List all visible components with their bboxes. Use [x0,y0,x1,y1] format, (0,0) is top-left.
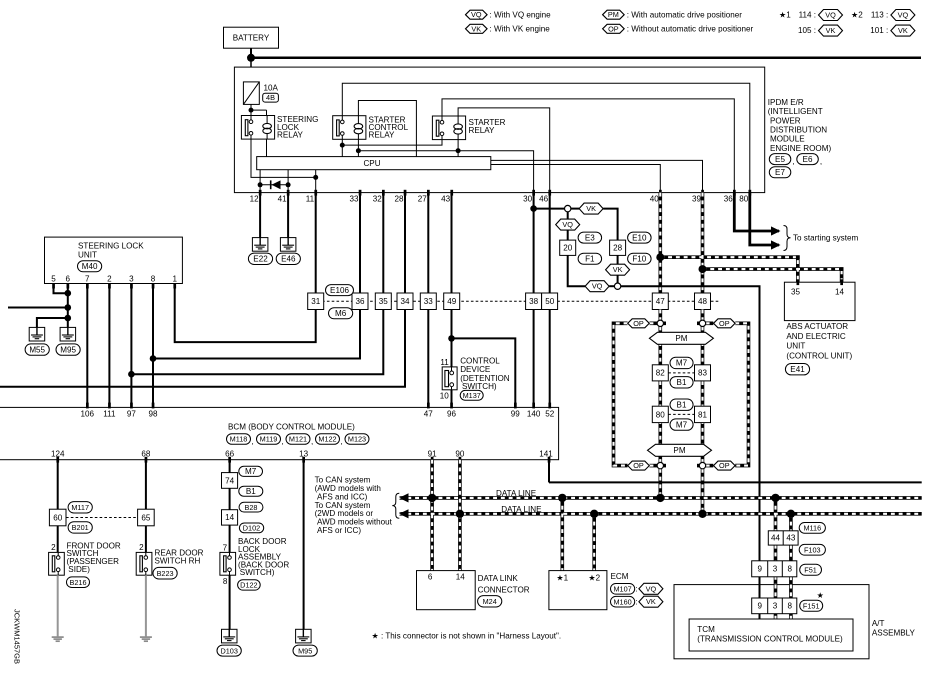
connector row F151 [752,598,797,614]
svg-text:AFS or ICC): AFS or ICC) [317,526,361,535]
dashed link 60-65 [66,517,138,519]
badge M122 [316,434,343,446]
svg-text:D103: D103 [220,646,237,655]
svg-text:★ : This connector is not show: ★ : This connector is not shown in "Harn… [372,632,562,641]
svg-text:To starting system: To starting system [793,233,858,242]
svg-text:SWITCH): SWITCH) [462,382,497,391]
svg-text:B1: B1 [677,401,687,410]
connector badge E6 [797,154,822,167]
badge F1 [578,253,602,264]
svg-text:M118: M118 [230,435,248,444]
svg-text:M55: M55 [29,345,45,354]
svg-text:★1: ★1 [556,574,568,583]
node circle top right [699,320,705,326]
wire striped 47 to PM section [658,310,662,321]
svg-text:11: 11 [440,358,449,367]
BCM top pin ticks [86,403,551,409]
svg-text:20: 20 [563,244,573,253]
connector box 36 [352,293,368,310]
badge B223 [153,567,177,579]
wire stubs through AT box [760,585,791,619]
svg-text:46: 46 [539,194,549,203]
svg-text:UNIT: UNIT [78,250,97,259]
svg-text:VQ: VQ [898,11,909,20]
wire striped BCM 91 to DLC 6 [430,460,434,571]
wire IPDM 80 to starting system [750,193,779,245]
svg-text:PM: PM [673,446,685,455]
svg-text:DATA LINK: DATA LINK [478,574,519,583]
badge D102 [239,523,263,533]
svg-text:48: 48 [698,297,708,306]
svg-text:VK: VK [471,24,481,33]
svg-text::: : [635,598,637,607]
wire CPU to pin 41 [286,170,291,193]
svg-text:F151: F151 [803,601,820,610]
svg-text:VQ: VQ [562,220,573,229]
connector box 74 [222,473,238,489]
badge M107 with VQ [611,583,663,594]
IPDM E/R enclosure [234,67,764,193]
svg-text:E22: E22 [253,255,268,264]
battery B1 [224,27,279,48]
svg-text:4B: 4B [266,93,275,102]
svg-text:(TRANSMISSION CONTROL MODULE): (TRANSMISSION CONTROL MODULE) [697,635,843,644]
svg-text:30: 30 [523,194,533,203]
connector box 33 [420,293,436,310]
svg-text:8: 8 [787,565,792,574]
badge M117 [68,502,92,513]
BCM body control module box [0,407,559,459]
wire BCM 68 to rear door switch [145,460,147,553]
svg-text:38: 38 [529,297,539,306]
node circle bottom left [657,462,663,468]
white stripes overlay bottom CAN wires [400,460,922,619]
svg-text:11: 11 [306,194,315,203]
svg-text:28: 28 [394,194,404,203]
badge VK top [579,203,603,214]
svg-text:★: ★ [817,591,824,600]
svg-text:MODULE: MODULE [770,135,805,144]
connector box 65 [138,509,155,526]
svg-text:39: 39 [692,194,702,203]
wire fusible link feed from pin 30 [534,208,565,210]
badge OP bottom left [628,461,650,470]
wire starter relay coil bottom to CPU [456,140,461,157]
badge E106 [326,285,354,296]
wire merge to TCM column [621,286,760,619]
connector box 80 [652,406,668,422]
badge PM bottom hexagon [648,444,712,456]
svg-text:49: 49 [447,297,457,306]
wire CPU to pin 39 [491,160,703,192]
svg-text::: : [635,585,637,594]
svg-text:RELAY: RELAY [469,126,496,135]
legend VK badge [466,24,551,33]
svg-text:M123: M123 [348,435,366,444]
data link connector box [417,571,530,610]
svg-text:68: 68 [141,449,151,458]
badge D122 [238,580,261,590]
wire IPDM 46 to BCM 52 [549,193,551,408]
svg-text:IPDM E/R: IPDM E/R [768,98,804,107]
svg-text:A/T: A/T [872,619,885,628]
wire SLR contact to wire 11 [251,139,318,180]
ECM box [549,571,629,610]
wire CPU to pin 40 [491,165,661,193]
body ground front door [52,637,64,641]
node junction on wire 40 [656,253,664,261]
svg-text:★2: ★2 [588,574,600,583]
svg-text:BCM (BODY CONTROL MODULE): BCM (BODY CONTROL MODULE) [228,423,355,432]
dashed link 82-83 [668,372,694,374]
connector box 35 [375,293,391,310]
svg-text:36: 36 [724,194,734,203]
svg-text:M117: M117 [71,503,89,512]
svg-text:RELAY: RELAY [369,131,396,140]
wire branch to ground M55 [37,318,68,327]
badge B1 back door [239,486,263,496]
svg-text:ASSEMBLY: ASSEMBLY [872,628,916,637]
BCM bottom pin ticks [56,457,550,463]
svg-text:8: 8 [151,274,156,283]
svg-text:B223: B223 [157,569,174,578]
svg-text:E41: E41 [790,365,805,374]
svg-text:83: 83 [698,369,708,378]
connector box 48 [695,293,711,310]
node junctions data line 1 [428,494,780,502]
svg-text:VK: VK [613,265,623,274]
svg-text:81: 81 [698,410,708,419]
svg-text:M137: M137 [463,391,481,400]
svg-text:DATA LINE: DATA LINE [496,489,537,498]
badge M24 [478,596,502,607]
svg-text:E3: E3 [585,233,595,242]
svg-text:★1: ★1 [779,10,791,19]
svg-text:M95: M95 [298,646,312,655]
wire striped BCM 90 to DLC 14 [458,460,462,571]
svg-text:M6: M6 [335,309,347,318]
svg-text:50: 50 [545,297,555,306]
connector badge E5 [769,154,794,167]
badge M160 with VK [611,596,663,607]
svg-text:VK: VK [898,26,908,35]
svg-text:ECM: ECM [611,572,629,581]
wire battery to bus [250,48,252,58]
ground D103 [217,629,241,656]
svg-text:CONTROL: CONTROL [460,356,500,365]
ground M95 bottom [293,629,317,656]
svg-text:D102: D102 [243,524,260,533]
svg-text:41: 41 [278,194,288,203]
svg-text:9: 9 [757,602,762,611]
svg-text:99: 99 [511,410,521,419]
svg-text:UNIT: UNIT [786,342,805,351]
svg-text:90: 90 [455,449,465,458]
dashed link 80-81 [668,413,694,415]
badge F103 [799,544,825,555]
wire VK to fuse 28 [603,209,617,241]
legend star1 connector numbers [779,10,843,37]
svg-text:124: 124 [51,449,65,458]
svg-text:VQ: VQ [471,10,482,19]
wire striped ECM star2 [592,514,596,571]
badge M123 [345,434,369,445]
badge OP top left [628,319,650,328]
wire back door switch to ground D103 [229,575,231,629]
svg-text:F103: F103 [804,545,821,554]
node circle bottom right [699,462,705,468]
svg-text:M24: M24 [483,597,497,606]
svg-text:140: 140 [527,410,541,419]
connector box 82 [652,365,668,381]
wire left feed [8,307,68,309]
svg-text:28: 28 [613,244,623,253]
svg-text:E6: E6 [803,155,813,164]
badge M7 upper [670,357,693,368]
wire SCR contact bottom to CPU and starter relay [340,139,442,156]
wire SLU pin 8 to BCM 98 [150,284,157,408]
wire VQ bottom to circle [609,285,614,287]
node option split top [565,205,571,211]
svg-text:B1: B1 [677,378,687,387]
svg-text:3: 3 [773,602,778,611]
svg-text:6: 6 [66,274,71,283]
svg-text:D122: D122 [240,581,257,590]
svg-text:VK: VK [646,597,656,606]
badge E10 [628,232,652,243]
node junctions data line 2 [456,510,795,518]
svg-text:,: , [282,437,284,446]
svg-text:35: 35 [791,288,801,297]
svg-text:114 :: 114 : [799,10,816,19]
svg-text:6: 6 [428,573,433,582]
svg-text:12: 12 [250,194,260,203]
svg-text:OP: OP [608,24,619,33]
svg-text:2: 2 [51,543,56,552]
relay steering lock relay [241,115,318,139]
wire VK bottom to circle [617,275,619,283]
svg-text:141: 141 [539,449,553,458]
svg-text:(CONTROL UNIT): (CONTROL UNIT) [786,351,852,360]
svg-text:40: 40 [650,194,660,203]
white stripes overlay PM section [614,310,749,514]
wire IPDM 11 to steering lock unit pin 1 [175,193,316,343]
wire VQ branch down [567,212,569,219]
badge M137 [460,390,483,400]
control device detention switch [440,356,510,400]
svg-text:33: 33 [349,194,359,203]
wire SCR contact to pin 80 [342,83,750,192]
svg-text:27: 27 [418,194,428,203]
wire striped 43 column [789,514,793,619]
badge F10 [628,253,652,264]
svg-text:14: 14 [225,513,235,522]
svg-text:60: 60 [53,513,63,522]
svg-text:91: 91 [428,449,438,458]
svg-text:F51: F51 [804,565,817,574]
connector box 83 [695,365,711,381]
wire SLU pin 7 to BCM 106 [86,284,88,408]
wire rear door switch to body ground [145,575,147,636]
svg-text:OP: OP [719,461,730,470]
svg-text:7: 7 [223,543,228,552]
connector box 14 [222,510,238,525]
svg-text:65: 65 [141,513,151,522]
svg-text:M122: M122 [318,435,336,444]
badge B216 [67,577,90,588]
wire SCR coil bottom to pin 30 feeder [356,139,534,192]
svg-text:POWER: POWER [770,116,801,125]
wire starter relay contact to pin 36 [442,99,734,193]
ABS actuator unit box [784,279,855,360]
fusible link 28 [610,240,626,255]
wire striped ECM star1 [560,498,564,571]
svg-text:★2: ★2 [851,10,863,19]
connector row F51 [752,561,797,577]
svg-text:33: 33 [424,297,434,306]
wire striped OP stubs [650,323,714,465]
svg-text:E7: E7 [775,168,785,177]
svg-text:106: 106 [81,410,95,419]
svg-text:VQ: VQ [646,584,657,593]
ground M55 [25,327,49,355]
connector box 44-43 [768,531,798,545]
svg-text:43: 43 [441,194,451,203]
wire SLU pin 6 to ground M95 [65,284,72,328]
wire IPDM 33 to steering lock unit pin 8 [153,193,360,359]
label to CAN system 2WD [315,501,393,535]
svg-text:: With VK engine: : With VK engine [490,24,551,33]
IPDM E/R name label [768,98,832,153]
svg-text:(INTELLIGENT: (INTELLIGENT [768,107,823,116]
wire striped 44 column [774,498,778,619]
badge M119 [257,434,284,446]
wire branch 40 to ABS pin 35 [660,257,798,282]
node junction on wire 39 [699,265,707,273]
back door lock assembly switch [220,537,290,586]
wire SLU pin 3 to BCM 97 [128,284,135,408]
svg-text:10: 10 [440,391,450,400]
legend VQ badge [466,10,552,19]
svg-text:M7: M7 [676,420,688,429]
svg-text:113 :: 113 : [871,10,888,19]
svg-text:9: 9 [757,565,762,574]
badge F51 [800,564,822,575]
svg-text:74: 74 [225,476,235,485]
svg-text:101 :: 101 : [870,26,888,35]
svg-text:B28: B28 [245,503,258,512]
connector box 34 [397,293,413,310]
legend OP badge [603,24,754,33]
svg-text:2: 2 [107,274,112,283]
svg-text:VK: VK [586,204,596,213]
svg-text:B216: B216 [69,578,86,587]
svg-text:43: 43 [786,534,796,543]
svg-text:,: , [792,157,794,166]
ground M95 [56,327,80,355]
svg-text:96: 96 [447,410,457,419]
svg-text:80: 80 [656,410,666,419]
svg-text:M7: M7 [245,467,257,476]
svg-text:ENGINE ROOM): ENGINE ROOM) [770,144,831,153]
connector box 47 [652,293,668,310]
CPU box [257,157,491,170]
badge F151 with star [800,591,824,612]
svg-text:14: 14 [456,573,466,582]
legend star2 connector numbers [851,10,915,37]
svg-text:111: 111 [103,410,116,419]
badge M118 [227,434,254,446]
arrow data line 2 [399,509,409,518]
rear door switch RH [136,543,203,575]
svg-text:3: 3 [129,274,134,283]
svg-text:PM: PM [608,10,619,19]
badge B1 upper [670,377,693,388]
connector box 81 [695,406,711,422]
svg-text:34: 34 [400,297,410,306]
svg-text:: Without automatic drive posi: : Without automatic drive positioner [627,24,754,33]
svg-text:RELAY: RELAY [277,130,304,139]
svg-text:,: , [341,437,343,446]
svg-text:E46: E46 [281,255,296,264]
wire pin 12 to ground [259,193,261,238]
svg-text:3: 3 [773,565,778,574]
badge VK bottom [606,264,630,275]
wire IPDM 28 to left edge [0,193,405,387]
A/T assembly box [674,585,916,659]
svg-text:M160: M160 [613,597,631,606]
wire branch 39 to ABS pin 14 [703,269,842,282]
svg-text:105 :: 105 : [798,26,816,35]
relay starter control relay [333,115,409,139]
node circle top left [657,320,663,326]
wire starter relay coil to pin 46 [458,108,550,193]
svg-text:: With VQ engine: : With VQ engine [490,10,552,19]
wire BCM 124 to front door switch [57,460,59,553]
svg-text:M40: M40 [82,262,98,271]
wire BCM 141 to TCM column [549,460,922,483]
wire striped OP bypass right [735,323,748,465]
wire bus to fuse [250,58,252,82]
svg-text:14: 14 [835,288,845,297]
connector box 31 [308,293,324,310]
svg-text:M7: M7 [676,359,688,368]
arrow data line 1 [399,493,409,502]
wire striped PM column left [658,327,662,463]
svg-text:97: 97 [127,410,137,419]
svg-text:SIDE): SIDE) [68,565,90,574]
wire fuse 28 to VK bottom [617,255,619,264]
svg-text:VQ: VQ [825,11,836,20]
svg-text:B201: B201 [72,523,89,532]
svg-text:47: 47 [656,297,666,306]
svg-text:M116: M116 [803,523,821,532]
fuse 10A 4B [243,82,278,105]
svg-text:32: 32 [373,194,383,203]
badge B28 [239,502,263,512]
svg-text:TCM: TCM [697,625,715,634]
wire IPDM 43 to control device and BCM 96 [448,193,515,408]
svg-text:M107: M107 [613,584,631,593]
badge OP bottom right [714,461,736,470]
steering lock unit box [45,237,183,288]
connector row dashed line E106/M6 [308,300,720,302]
arrow to starting system 2 [771,240,781,249]
badge M6 [329,308,353,319]
svg-text:82: 82 [656,369,666,378]
svg-text:8: 8 [787,602,792,611]
wire pin 41 to ground [287,193,289,238]
